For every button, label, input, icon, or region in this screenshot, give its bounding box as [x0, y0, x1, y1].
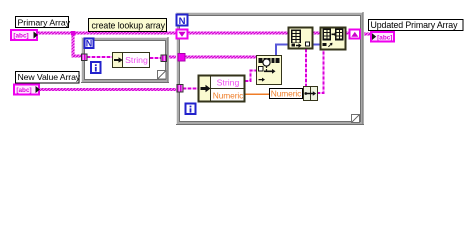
wire: parse node String output -> Search 1D Array [245, 71, 256, 82]
tunnel: lookup array into big loop (solid) [178, 54, 185, 62]
tunnel: small loop auto-index output [161, 55, 167, 62]
tunnel: small loop auto-index input [82, 54, 88, 61]
resize corner of small loop [158, 71, 167, 80]
loop count terminal N (small loop) [85, 39, 94, 49]
wire: String node -> small loop output tunnel [150, 57, 161, 59]
wire: Index Array element output (passes under icon) down to convert node [305, 44, 307, 86]
label: Primary Array [16, 17, 71, 28]
wire: small loop tunnel -> convert node [87, 56, 112, 58]
wire: branch down to small loop input tunnel [72, 33, 75, 56]
node: Search 1D Array [257, 56, 282, 85]
wire: lookup array inside big loop -> Search 1D Array [185, 56, 256, 59]
node: Numeric wire label [270, 89, 303, 99]
svg-text:[abc]: [abc] [377, 34, 392, 41]
for-loop frame (big) [176, 12, 364, 125]
wire: NVA tunnel -> parse node [183, 88, 198, 90]
iteration terminal i (small loop) [91, 62, 101, 73]
terminal: Primary Array control [abc] [11, 30, 38, 40]
iteration terminal i (big loop) [186, 104, 196, 115]
wire: Search 1D Array index output -> Index Array / Replace index inputs (blue i32) [276, 45, 321, 56]
wire: Replace Array Subset -> right shift register [346, 32, 350, 35]
node: Replace Array Subset [321, 28, 346, 50]
svg-text:[abc]: [abc] [16, 87, 31, 94]
svg-text:N: N [179, 16, 186, 27]
svg-text:N: N [86, 39, 93, 49]
wire: horizontal into small loop tunnel [72, 55, 83, 58]
wire: shift register left -> Index Array -> Replace Array Subset (passes under Index Array) [188, 32, 321, 35]
label: create lookup array (free label) [89, 19, 167, 32]
svg-text:[abc]: [abc] [13, 32, 28, 39]
wire: New Value Array -> big loop indexing tunnel [36, 88, 177, 91]
tunnel: New Value Array auto-index input [177, 85, 183, 93]
node: wire junction dot [71, 31, 75, 35]
terminal: Updated Primary Array indicator [abc] [371, 32, 394, 42]
svg-text:Numeric: Numeric [213, 90, 243, 100]
label: Updated Primary Array [369, 20, 464, 31]
resize corner of big loop [352, 115, 360, 123]
svg-text:New Value Array: New Value Array [18, 72, 81, 82]
node: convert-to-String (arrow + String) in small loop [113, 53, 150, 68]
svg-text:Updated Primary Array: Updated Primary Array [371, 20, 459, 30]
node: Index Array [289, 28, 313, 49]
wire: convert node output -> Replace Array Subset element input (passes under icon) [317, 46, 324, 93]
node: parse (arrow + String / Numeric rows) [199, 76, 245, 102]
wire: parse node Numeric output -> Numeric label (orange) [245, 93, 270, 95]
wire: right shift register -> Updated Primary Array [364, 33, 371, 36]
svg-text:String: String [217, 77, 240, 87]
shift register right terminal (up arrow) [350, 30, 361, 39]
label: New Value Array [16, 72, 81, 84]
wire: Primary Array -> big loop shift register (1D string array) [38, 32, 178, 35]
terminal: New Value Array control [abc] [14, 85, 40, 95]
node: conversion (two cells with arrow) [304, 87, 318, 101]
for-loop frame (small) [81, 37, 169, 83]
loop count terminal N (big loop) [177, 15, 188, 28]
shift register left terminal (down arrow) [177, 30, 188, 39]
svg-text:Numeric: Numeric [271, 89, 301, 99]
svg-text:create lookup array: create lookup array [92, 20, 166, 30]
wire: small loop output tunnel -> big loop tunnel [169, 56, 179, 59]
svg-text:Primary Array: Primary Array [18, 17, 71, 27]
svg-text:String: String [125, 55, 148, 65]
